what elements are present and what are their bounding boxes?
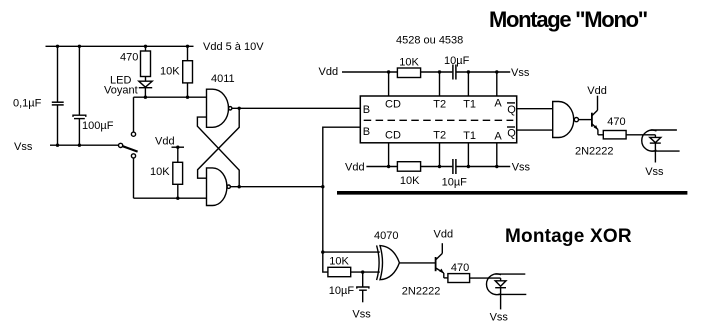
svg-text:470: 470 bbox=[607, 116, 625, 128]
wire node A (gate1 input1) bbox=[134, 96, 207, 98]
svg-text:CD: CD bbox=[385, 130, 401, 142]
wire cross-couple B (gate1 in2 to gate2 out) bbox=[197, 117, 239, 187]
resistor R2 10K upper bbox=[183, 46, 193, 97]
wire vertical bus to IC pin B bottom and down to XOR bbox=[323, 127, 361, 252]
svg-text:T2: T2 bbox=[433, 130, 446, 142]
node gate1 output junction bbox=[238, 107, 241, 110]
svg-text:Vss: Vss bbox=[14, 141, 33, 153]
svg-text:10µF: 10µF bbox=[329, 285, 355, 297]
resistor R6 470 bbox=[603, 131, 626, 139]
svg-text:Vdd: Vdd bbox=[434, 229, 454, 241]
svg-text:10K: 10K bbox=[160, 65, 180, 77]
svg-text:T1: T1 bbox=[463, 130, 476, 142]
svg-text:0,1µF: 0,1µF bbox=[13, 98, 42, 110]
svg-text:10K: 10K bbox=[400, 175, 420, 187]
IC divider dashed line bbox=[364, 119, 514, 121]
svg-text:10K: 10K bbox=[150, 166, 170, 178]
resistor R7 10K bbox=[328, 267, 351, 276]
svg-text:Q: Q bbox=[507, 128, 516, 140]
gate U1A NAND top bbox=[207, 89, 232, 127]
svg-text:Vdd: Vdd bbox=[155, 136, 175, 148]
svg-text:4011: 4011 bbox=[211, 73, 235, 85]
wire Qbar top to gate3 bbox=[517, 108, 553, 110]
svg-text:Vss: Vss bbox=[511, 67, 530, 79]
gate U3 NAND output bbox=[553, 102, 579, 138]
power Vdd lower supply bbox=[172, 147, 185, 162]
LED D3 indicator bbox=[486, 274, 526, 310]
wire node B (gate2 input2) bbox=[134, 197, 207, 199]
wire bottom Vss rail left bbox=[50, 144, 119, 146]
capacitor C4 10uF bottom bbox=[453, 159, 456, 174]
wire gate3 output to Q1 base bbox=[579, 119, 592, 121]
wire R7 to XOR input2 bbox=[351, 271, 380, 273]
node top rail junction dots bbox=[56, 45, 189, 48]
svg-text:Q: Q bbox=[507, 104, 516, 116]
wire IC top rail bbox=[342, 71, 510, 73]
wire gate2 output to vertical bus bbox=[230, 186, 322, 188]
svg-text:470: 470 bbox=[451, 262, 469, 274]
wire XOR output to Q2 base bbox=[399, 262, 435, 264]
node bottom rail dots bbox=[387, 165, 499, 168]
svg-text:10K: 10K bbox=[399, 56, 419, 68]
wire bus corner to XOR input1 bbox=[323, 251, 380, 253]
capacitor C5 10uF bbox=[357, 272, 369, 302]
gate U1B NAND bottom bbox=[207, 168, 231, 206]
svg-text:100µF: 100µF bbox=[82, 120, 114, 132]
svg-text:Vss: Vss bbox=[490, 312, 509, 324]
node gate2 output junction bbox=[238, 185, 241, 188]
svg-text:Vdd 5 à 10V: Vdd 5 à 10V bbox=[203, 41, 264, 53]
gate U4 XOR bbox=[377, 245, 400, 280]
wire cross-couple A (gate1 out to gate2 in1) bbox=[198, 108, 240, 178]
svg-text:A: A bbox=[494, 131, 502, 143]
separator thick line bbox=[337, 191, 687, 195]
capacitor C3 10uF top bbox=[453, 65, 456, 80]
wire gate1 output to IC pin B top bbox=[232, 107, 360, 109]
svg-text:10µF: 10µF bbox=[444, 55, 470, 67]
svg-text:10K: 10K bbox=[329, 256, 349, 268]
svg-text:B: B bbox=[363, 104, 370, 116]
resistor R1 470 bbox=[141, 46, 151, 81]
resistor R5 10K bottom bbox=[397, 162, 420, 172]
node XOR input corner bbox=[321, 250, 324, 253]
svg-text:Vss: Vss bbox=[645, 166, 664, 178]
wire R6 to LED2 bbox=[626, 134, 655, 136]
svg-text:470: 470 bbox=[120, 52, 138, 64]
wire top Vdd rail left bbox=[46, 45, 194, 47]
svg-text:Montage "Mono": Montage "Mono" bbox=[489, 7, 647, 32]
svg-text:Montage XOR: Montage XOR bbox=[505, 226, 632, 247]
wire IC bottom rail bbox=[366, 166, 510, 168]
transistor Q1 2N2222 bbox=[592, 96, 603, 135]
IC U2 4528 box bbox=[360, 96, 516, 143]
svg-text:Vss: Vss bbox=[352, 309, 371, 321]
wire Qbar bottom to gate3 bbox=[517, 129, 553, 131]
node bus junction bbox=[321, 185, 324, 188]
LED D2 indicator bbox=[642, 130, 680, 163]
node bottom rail junction dots bbox=[56, 144, 81, 147]
svg-text:A: A bbox=[494, 97, 502, 109]
wire corner down to R7 bbox=[323, 252, 328, 272]
svg-text:Vdd: Vdd bbox=[345, 162, 365, 174]
wire IC bottom pin stubs bbox=[389, 143, 497, 167]
svg-text:2N2222: 2N2222 bbox=[402, 285, 441, 297]
transistor Q2 2N2222 bbox=[436, 243, 448, 278]
resistor R8 470 bbox=[448, 274, 470, 283]
resistor R3 10K lower bbox=[173, 162, 183, 198]
wire IC top pin stubs bbox=[389, 72, 497, 96]
node cap junction bbox=[361, 270, 364, 273]
wire switch bottom throw to node B bbox=[133, 158, 135, 198]
resistor R4 10K top bbox=[397, 68, 420, 78]
svg-text:4070: 4070 bbox=[374, 230, 398, 242]
svg-text:T1: T1 bbox=[463, 99, 476, 111]
wire switch top throw to node A bbox=[133, 97, 135, 132]
svg-text:CD: CD bbox=[385, 99, 401, 111]
svg-text:T2: T2 bbox=[433, 99, 446, 111]
svg-text:Vdd: Vdd bbox=[319, 66, 339, 78]
svg-text:Vss: Vss bbox=[512, 162, 531, 174]
capacitor C1 0,1uF bbox=[52, 46, 64, 145]
wire R8 to LED3 bbox=[470, 277, 501, 279]
svg-text:2N2222: 2N2222 bbox=[575, 145, 614, 157]
switch S1 bbox=[119, 132, 138, 158]
svg-text:4528 ou 4538: 4528 ou 4538 bbox=[396, 35, 463, 47]
node top rail dots bbox=[387, 70, 499, 73]
LED D1 voyant bbox=[139, 81, 152, 97]
capacitor C2 100uF bbox=[73, 46, 86, 145]
svg-text:10µF: 10µF bbox=[442, 177, 468, 189]
svg-text:Voyant: Voyant bbox=[104, 85, 138, 97]
svg-text:B: B bbox=[363, 126, 370, 138]
svg-text:Vdd: Vdd bbox=[587, 85, 607, 97]
